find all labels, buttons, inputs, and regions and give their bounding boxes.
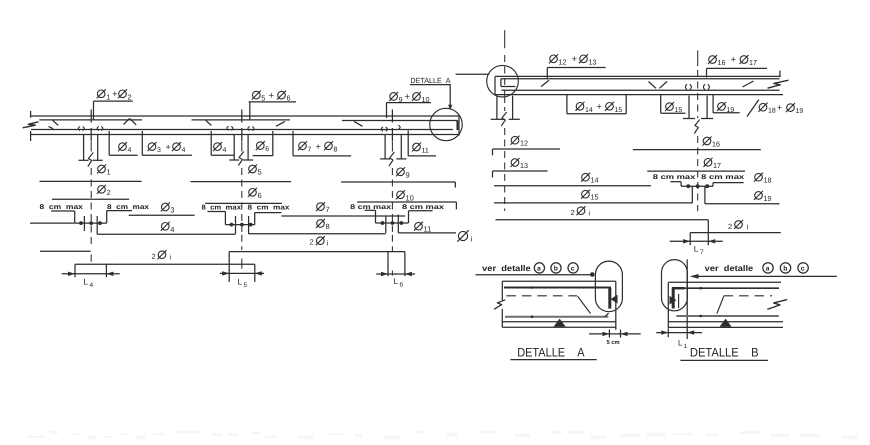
svg-text:8: 8: [334, 146, 338, 153]
svg-text:12: 12: [559, 57, 567, 66]
upper bottom bar 2Oi middle segment: [229, 251, 405, 253]
label O1+O2 with leader: [97, 90, 105, 98]
svg-text:+: +: [405, 92, 411, 103]
under-beam box bottom lines right drawing: [567, 113, 626, 115]
slab A right edge: [615, 281, 617, 330]
svg-text:8 cm max: 8 cm max: [202, 204, 242, 211]
support 1 bent bar hooks below beam: [83, 135, 85, 160]
svg-text:18: 18: [768, 108, 776, 115]
svg-text:2: 2: [728, 222, 732, 231]
svg-text:L: L: [678, 339, 683, 348]
mid-span top bar row C span 1-2: [129, 214, 195, 216]
left beam right end cap: [458, 116, 460, 136]
row label O3: [162, 203, 170, 211]
svg-text:I: I: [747, 224, 749, 231]
svg-text:2: 2: [128, 92, 132, 101]
right beam break tick above right end: [779, 71, 781, 77]
svg-text:15: 15: [675, 107, 683, 114]
bar O19: [705, 203, 780, 205]
row label O8: [317, 220, 325, 228]
svg-text:8 cm max: 8 cm max: [653, 174, 696, 181]
label O9+O10 with leader: [390, 93, 398, 101]
svg-text:3: 3: [157, 147, 161, 154]
svg-text:+: +: [777, 103, 782, 113]
bottom bar row D span 1-2: [97, 233, 235, 235]
row label O2: [98, 186, 106, 194]
concrete hatch marks on left beam: [49, 119, 401, 132]
circled letter c A: [568, 263, 578, 273]
leader line with arrow B: [692, 275, 837, 277]
circled letter b B: [780, 263, 790, 273]
label O18+O19 with diagonal leader: [747, 100, 759, 117]
slab B bottom rebar: [676, 315, 778, 317]
row label O9: [397, 168, 405, 176]
svg-text:+: +: [269, 90, 275, 101]
slab B hook arrow: [670, 296, 677, 305]
slab B dashed bent bar: [724, 295, 773, 297]
box label O4 first: [119, 143, 127, 151]
slab B triangle mark: [720, 319, 732, 327]
svg-text:3: 3: [170, 206, 174, 215]
slab B top rebar: [672, 287, 779, 289]
support 2 bent bar hooks below beam: [233, 135, 235, 160]
left beam top rebar line over support 1: [39, 119, 142, 121]
leader line with dot A: [475, 274, 590, 276]
slab B bottom line 2: [668, 326, 783, 328]
label O16+O17 with leader: [709, 56, 717, 64]
concrete hatch marks on right beam: [541, 80, 754, 90]
support 3 tick through beam: [391, 110, 393, 123]
right beam right break symbol: [768, 80, 789, 88]
row label O15: [582, 190, 590, 198]
svg-text:5: 5: [258, 168, 262, 177]
svg-text:17: 17: [713, 161, 721, 170]
row label Oi at row D end: [458, 231, 467, 240]
slab B bottom line 1: [668, 321, 783, 323]
top bar row A over support 3 with end tick: [341, 181, 455, 183]
upper bottom bar 2Oi right drawing: [496, 219, 709, 221]
second bar row B support 3 with end tick: [357, 201, 456, 203]
right beam top rebar end hook inside circle: [500, 79, 502, 87]
svg-text:13: 13: [520, 161, 528, 170]
L5 lap dimension at support 2: [228, 252, 230, 282]
right beam bottom line 2: [495, 94, 783, 96]
highlight oval B: [662, 260, 688, 311]
support 1 tick through beam: [90, 110, 92, 123]
svg-text:c: c: [571, 266, 575, 273]
slab B right break symbol: [767, 300, 787, 310]
bar O13 with left end hook: [492, 171, 494, 178]
svg-text:13: 13: [589, 57, 597, 66]
svg-text:12: 12: [520, 139, 528, 148]
support R1 bent bar hooks below beam: [496, 96, 498, 120]
top bar row A over support 1: [40, 180, 142, 182]
svg-text:18: 18: [764, 176, 772, 185]
svg-text:i: i: [327, 240, 329, 248]
faint cut-off text at page bottom: [28, 431, 858, 439]
svg-text:8 cm max: 8 cm max: [701, 174, 744, 181]
support 3 bent bar hooks below beam: [384, 135, 386, 159]
small dots on B rebar: [699, 287, 702, 290]
svg-text:6: 6: [400, 282, 404, 289]
svg-text:b: b: [554, 266, 558, 273]
mid-span top bar row C span 2-3: [281, 215, 405, 217]
bar O17: [647, 170, 745, 172]
circled letter c B: [798, 263, 808, 273]
L1 dimension B: [667, 328, 669, 337]
box label O7+O8: [299, 142, 307, 150]
svg-text:5: 5: [244, 282, 248, 289]
svg-text:5: 5: [261, 94, 265, 103]
slab A top line: [502, 280, 616, 282]
svg-text:+: +: [572, 54, 578, 65]
svg-text:1: 1: [106, 92, 110, 101]
svg-text:ver detalle: ver detalle: [482, 263, 531, 273]
row label O16: [703, 137, 711, 145]
support 3 centerline below beam: [391, 142, 393, 152]
right beam top rebar line: [501, 78, 780, 80]
svg-text:2: 2: [152, 252, 156, 261]
svg-text:2: 2: [310, 237, 314, 246]
support 2 centerline below beam: [241, 142, 243, 152]
second bar row B support 1: [52, 198, 129, 200]
left beam top rebar line over support 3 with end hook: [342, 120, 458, 122]
svg-text:a: a: [766, 266, 770, 273]
svg-text:2: 2: [571, 208, 575, 217]
slab A top rebar thick: [504, 287, 611, 289]
slab A dashed bent bar: [506, 295, 577, 297]
svg-text:DETALLE A: DETALLE A: [410, 76, 450, 85]
svg-text:+: +: [112, 89, 118, 100]
DETALLE A circle on left beam end: [430, 108, 462, 140]
bar O14: [494, 185, 651, 187]
svg-text:+: +: [166, 142, 171, 152]
under-beam box bottom lines left drawing: [109, 154, 138, 156]
lower bottom bar 2Oi: [75, 263, 255, 265]
box label O6: [257, 142, 265, 150]
svg-text:c: c: [801, 266, 805, 273]
right beam bottom line 1: [501, 89, 779, 91]
label O5+O6 with leader: [252, 91, 260, 99]
circled letter a A: [534, 263, 544, 273]
box label O19: [718, 103, 726, 111]
upper bottom bar 2Oi left segment: [40, 250, 91, 252]
svg-text:2: 2: [107, 188, 111, 197]
circled letter b A: [551, 263, 561, 273]
svg-text:15: 15: [591, 193, 599, 202]
left beam bottom line 2: [31, 134, 459, 136]
svg-text:+: +: [597, 102, 602, 112]
svg-text:19: 19: [727, 107, 735, 114]
row label O18: [755, 173, 763, 181]
svg-text:+: +: [316, 141, 321, 151]
left beam left end bottom tick: [30, 131, 32, 141]
under-beam box dividers right drawing: [566, 95, 568, 114]
bottom bar row D span 2-3: [249, 233, 386, 235]
svg-text:i: i: [589, 210, 591, 218]
box label O11: [413, 143, 421, 151]
support face vertical line B: [686, 259, 688, 339]
left beam left end top tick: [30, 111, 32, 118]
slab A left edge with break: [501, 281, 503, 300]
box label O14+O15: [576, 103, 584, 111]
svg-text:L: L: [394, 277, 399, 286]
svg-text:i: i: [170, 254, 172, 262]
svg-text:4: 4: [223, 147, 227, 154]
svg-text:1: 1: [107, 168, 111, 177]
svg-text:a: a: [537, 266, 541, 273]
svg-text:7: 7: [308, 146, 312, 153]
support R2 bent bar hooks below beam: [688, 96, 690, 119]
right beam slab top line: [495, 75, 781, 77]
svg-text:6: 6: [265, 146, 269, 153]
svg-text:i: i: [471, 235, 473, 244]
box label O3+O4: [148, 143, 156, 151]
support 2 tick through beam: [241, 110, 243, 123]
slab B left edge: [667, 282, 669, 328]
5 cm dimension A: [608, 330, 610, 338]
bottom bar row D right of support 3: [398, 232, 456, 234]
left beam left break symbol: [23, 122, 39, 128]
svg-text:16: 16: [718, 58, 726, 67]
row label O6: [249, 189, 257, 197]
row label O10: [397, 191, 405, 199]
svg-text:8 cm max: 8 cm max: [402, 204, 444, 211]
top bar row A over support 2: [191, 181, 292, 183]
left beam slab top line: [31, 115, 459, 117]
svg-text:L: L: [694, 244, 699, 253]
row label O12: [511, 136, 519, 144]
second bar row B support 2: [205, 202, 282, 204]
row label O14: [582, 173, 590, 181]
left beam top rebar line over support 2: [192, 119, 291, 121]
slab A bottom line 2: [502, 326, 616, 328]
support 1 centerline below beam: [90, 142, 92, 152]
svg-text:DETALLE B: DETALLE B: [690, 345, 759, 359]
circled letter a B: [763, 263, 773, 273]
svg-text:L: L: [238, 277, 243, 286]
svg-text:19: 19: [796, 108, 804, 115]
DETALLE A leader arrow to circle: [449, 85, 451, 107]
svg-text:8 cm max: 8 cm max: [248, 204, 290, 211]
svg-text:ver detalle: ver detalle: [705, 263, 754, 273]
box label O15: [666, 103, 674, 111]
box label O4 second: [214, 143, 222, 151]
svg-text:7: 7: [326, 205, 330, 214]
right beam left end cap: [494, 76, 496, 94]
row label O7: [317, 203, 325, 211]
bar O15: [494, 202, 692, 204]
L6 lap dimension at support 3: [387, 252, 389, 276]
row label O4: [162, 223, 170, 231]
small dots on A rebar: [531, 286, 534, 289]
L4 lap dimension at support 1: [74, 264, 76, 277]
link line from DETALLE A to right beam circle: [456, 73, 490, 75]
svg-text:+: +: [731, 55, 737, 66]
row label O11: [415, 222, 423, 230]
support R1 centerline: [504, 30, 506, 48]
svg-text:1: 1: [684, 343, 688, 350]
left beam bottom line 1: [31, 129, 453, 131]
slab A bottom rebar: [505, 316, 608, 318]
row label O17: [704, 159, 712, 167]
svg-text:L: L: [84, 277, 89, 286]
slab A rebar end hook thick: [608, 288, 611, 309]
svg-text:19: 19: [764, 194, 772, 203]
svg-text:4: 4: [128, 147, 132, 154]
under-beam box dividers left drawing: [108, 131, 110, 155]
svg-text:14: 14: [591, 176, 599, 185]
slab A triangle mark: [554, 319, 566, 327]
slab B rebar hook thick: [672, 287, 685, 290]
svg-text:4: 4: [182, 147, 186, 154]
row label O13: [511, 159, 519, 167]
svg-text:14: 14: [585, 107, 593, 114]
svg-text:4: 4: [170, 225, 174, 234]
svg-text:6: 6: [258, 191, 262, 200]
label O12+O13 with leader: [550, 55, 558, 63]
slab B top line: [668, 281, 781, 283]
edge-span bottom bar left of support 1: [30, 222, 75, 224]
highlight oval A: [595, 261, 622, 312]
bar O12 with left end hook: [492, 149, 494, 155]
svg-text:7: 7: [700, 249, 704, 256]
svg-text:10: 10: [406, 193, 414, 202]
svg-text:8 cm max: 8 cm max: [40, 204, 84, 211]
svg-text:4: 4: [90, 282, 94, 289]
row label O19: [755, 192, 763, 200]
slab A bottom line 1: [502, 321, 616, 323]
bar O16: [633, 149, 761, 151]
row label O5: [249, 165, 257, 173]
svg-text:8: 8: [326, 222, 330, 231]
support R2 centerline: [697, 50, 699, 66]
slab A hook arrow: [611, 295, 618, 304]
svg-text:17: 17: [749, 58, 757, 67]
svg-text:5 cm: 5 cm: [607, 340, 620, 346]
svg-text:b: b: [783, 266, 787, 273]
L7 lap dimension: [689, 233, 691, 246]
svg-text:16: 16: [712, 140, 720, 149]
detail circle at right beam left end: [487, 65, 519, 97]
row label O1: [98, 165, 106, 173]
lower bottom bar 2Oi right drawing: [690, 232, 781, 234]
svg-text:6: 6: [287, 94, 291, 103]
svg-text:9: 9: [406, 170, 410, 179]
slab B hook inner thin bar: [678, 294, 680, 308]
svg-text:11: 11: [422, 148, 429, 155]
svg-text:15: 15: [615, 107, 623, 114]
svg-text:DETALLE A: DETALLE A: [517, 345, 585, 359]
